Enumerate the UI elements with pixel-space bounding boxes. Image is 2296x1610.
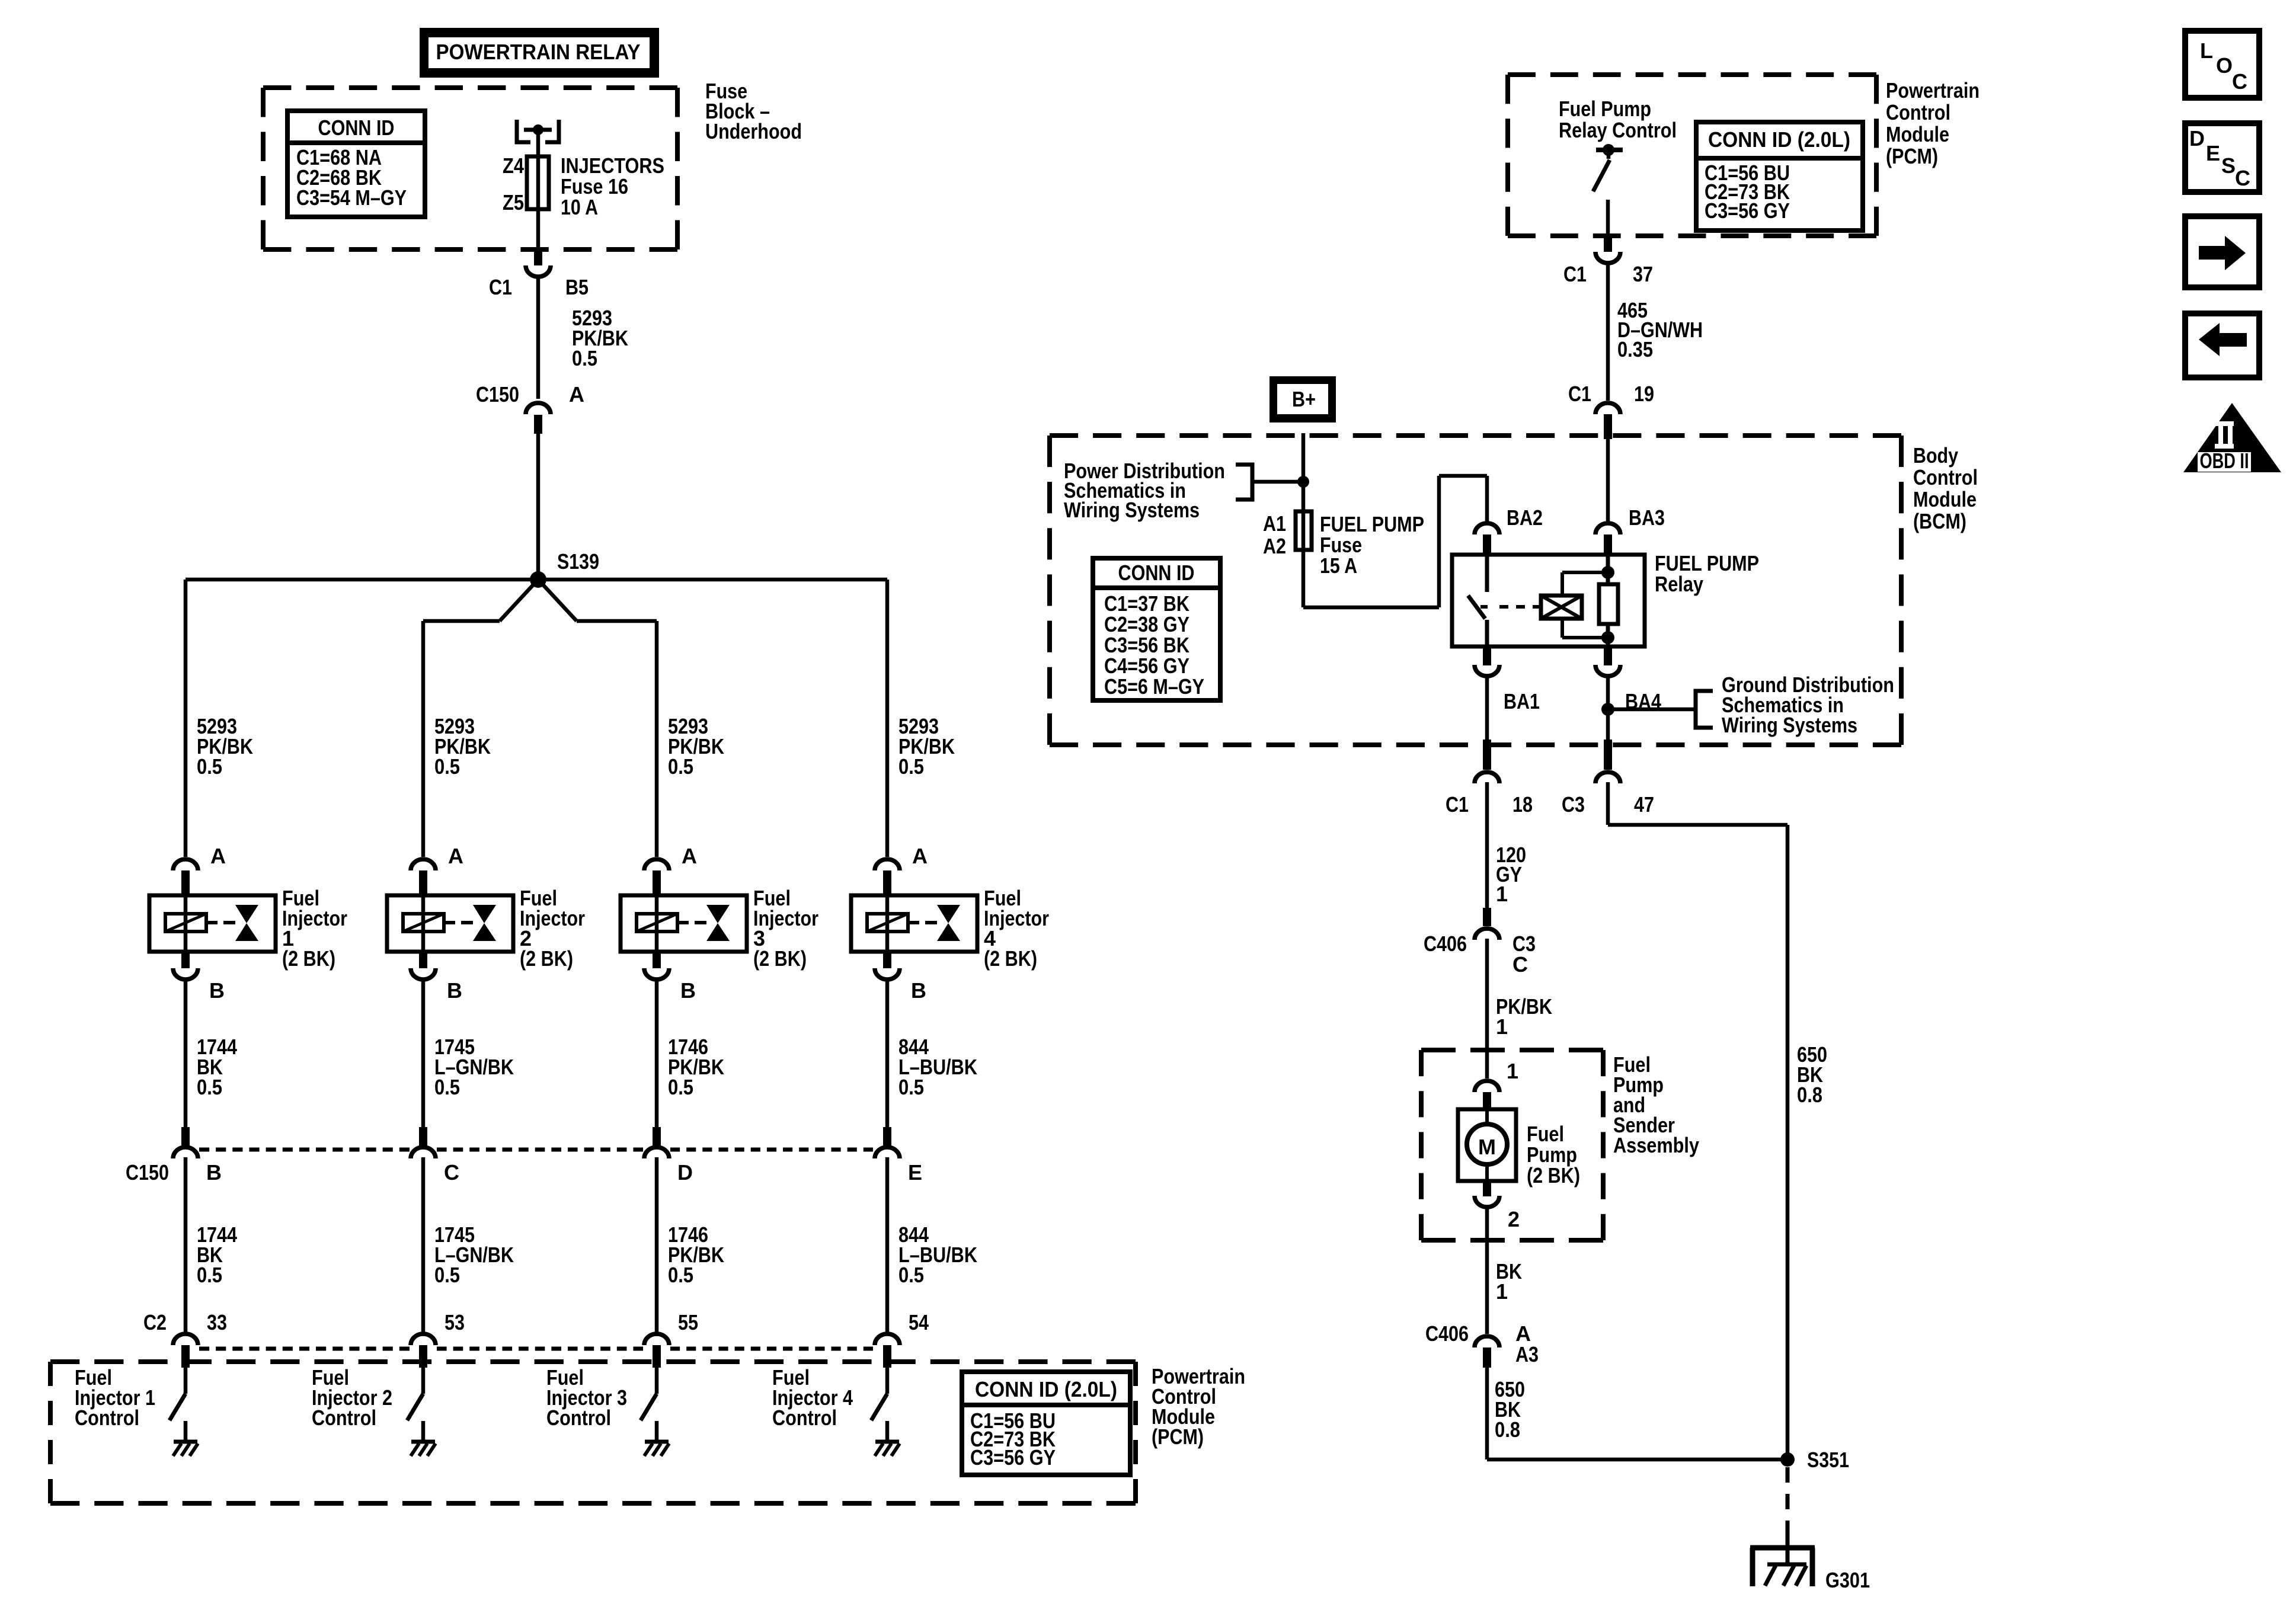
svg-text:0.5: 0.5 — [434, 1263, 460, 1287]
svg-text:Relay: Relay — [1655, 572, 1703, 596]
svg-text:M: M — [1478, 1135, 1496, 1159]
connector pin 1 (pump) — [1475, 1059, 1518, 1109]
label box POWERTRAIN RELAY — [420, 28, 659, 78]
wire PK/BK 1 — [1487, 939, 1552, 1078]
svg-text:0.5: 0.5 — [434, 1075, 460, 1099]
CONN ID (2.0L) table (left PCM) — [962, 1372, 1130, 1475]
svg-text:B: B — [209, 978, 225, 1003]
relay resistor — [1599, 555, 1618, 646]
icon OBD II — [2183, 403, 2281, 473]
wire 5293 PK/BK 0.5 (branch 1) — [186, 580, 253, 857]
ground (injector 3 driver) — [644, 1442, 669, 1456]
connector pin BA2 — [1475, 505, 1543, 555]
svg-text:15 A: 15 A — [1320, 553, 1357, 578]
svg-text:BA1: BA1 — [1504, 689, 1540, 713]
svg-text:BA3: BA3 — [1629, 505, 1665, 530]
relay FUEL PUMP — [1452, 551, 1759, 646]
svg-text:C: C — [2232, 69, 2247, 94]
svg-text:Relay Control: Relay Control — [1559, 118, 1677, 142]
svg-text:C150: C150 — [126, 1160, 169, 1185]
svg-text:E: E — [2206, 141, 2220, 165]
connector C150 pin B — [126, 1127, 222, 1185]
svg-text:C1: C1 — [1446, 792, 1469, 817]
svg-text:0.5: 0.5 — [898, 754, 924, 779]
svg-text:10 A: 10 A — [561, 195, 598, 219]
connector C406 pin A/A3 — [1425, 1321, 1539, 1368]
svg-text:Z4: Z4 — [503, 153, 524, 178]
svg-text:CONN ID: CONN ID — [318, 116, 395, 140]
svg-text:1: 1 — [1496, 1279, 1508, 1304]
svg-text:C: C — [2235, 166, 2250, 190]
svg-text:Wiring Systems: Wiring Systems — [1064, 498, 1200, 522]
fuel injector 1 — [149, 886, 347, 971]
relay coil — [1541, 572, 1608, 638]
svg-text:0.5: 0.5 — [197, 1263, 222, 1287]
wire 1746 PK/BK 0.5 — [657, 980, 724, 1127]
svg-text:C406: C406 — [1424, 932, 1467, 956]
svg-text:54: 54 — [909, 1310, 929, 1334]
svg-text:CONN ID: CONN ID — [1118, 561, 1195, 585]
fuse FUEL PUMP 15 A — [1263, 511, 1424, 578]
wire 1745 L–GN/BK 0.5 (PCM side) — [423, 1157, 514, 1333]
splice S351 — [1780, 1448, 1849, 1472]
wire B+ feed — [1302, 433, 1306, 607]
svg-text:S139: S139 — [557, 549, 599, 574]
svg-text:Control: Control — [546, 1406, 611, 1430]
wire 844 L–BU/BK 0.5 — [887, 980, 977, 1127]
svg-text:Z5: Z5 — [503, 190, 524, 215]
connector pin 2 (pump) — [1475, 1181, 1520, 1231]
label Body Control Module (BCM) — [1913, 443, 1978, 533]
svg-text:C406: C406 — [1425, 1321, 1469, 1346]
svg-text:Control: Control — [1886, 100, 1950, 124]
icon DESC — [2185, 123, 2259, 192]
svg-text:POWERTRAIN RELAY: POWERTRAIN RELAY — [436, 40, 641, 64]
svg-text:(2 BK): (2 BK) — [282, 946, 335, 971]
wire S139 bus — [186, 580, 887, 621]
ground (injector 2 driver) — [411, 1442, 436, 1456]
connector C2 pin 55 — [644, 1310, 698, 1368]
label Fuel Injector 4 Control — [772, 1365, 853, 1430]
svg-text:B: B — [206, 1160, 222, 1185]
connector pin BA4 — [1595, 646, 1661, 713]
svg-text:C3=56 GY: C3=56 GY — [970, 1445, 1056, 1470]
relay switch contacts — [1468, 555, 1542, 646]
svg-text:53: 53 — [445, 1310, 465, 1334]
connector row dashed line (C150) — [199, 1148, 873, 1152]
svg-text:D: D — [2189, 126, 2205, 151]
splice S139 — [530, 549, 599, 588]
svg-text:BA2: BA2 — [1507, 505, 1543, 530]
svg-text:C3: C3 — [1562, 792, 1585, 817]
wire 5293 PK/BK 0.5 (branch 3) — [657, 621, 724, 857]
svg-text:0.5: 0.5 — [197, 754, 222, 779]
svg-text:0.5: 0.5 — [898, 1263, 924, 1287]
svg-text:Control: Control — [772, 1406, 837, 1430]
connector C150 pin A — [476, 382, 584, 434]
svg-text:C5=6 M–GY: C5=6 M–GY — [1104, 674, 1204, 699]
wire 120 GY 1 — [1487, 782, 1526, 908]
bracket (power distribution) — [1236, 465, 1303, 500]
connector C2 pin 53 — [411, 1310, 465, 1368]
icon arrow left — [2185, 313, 2259, 377]
connector pin BA3 — [1595, 505, 1665, 555]
svg-text:A2: A2 — [1263, 534, 1286, 558]
connector C406 pin C3/C — [1424, 908, 1536, 977]
label Ground Distribution Schematics in Wiring Systems — [1722, 673, 1894, 737]
svg-text:1: 1 — [1496, 882, 1508, 906]
wire 5293 PK/BK 0.5 (branch 2) — [423, 621, 491, 857]
svg-text:CONN ID (2.0L): CONN ID (2.0L) — [975, 1377, 1117, 1401]
connector C2 pin 33 — [143, 1310, 227, 1368]
connector row dashed line (C2) — [199, 1347, 873, 1351]
label Fuel Pump and Sender Assembly — [1613, 1052, 1699, 1157]
svg-text:0.5: 0.5 — [668, 754, 693, 779]
fuel pump motor — [1458, 1109, 1580, 1188]
svg-text:(2 BK): (2 BK) — [753, 946, 807, 971]
switch fuel injector 1 driver — [170, 1368, 186, 1442]
label Fuel Injector 1 Control — [75, 1365, 155, 1430]
connector pin A (injector 3) — [644, 844, 697, 895]
svg-text:OBD II: OBD II — [2200, 449, 2249, 473]
node ground tap — [1601, 703, 1614, 716]
fuel injector 2 — [387, 886, 585, 971]
label Fuel Pump Relay Control — [1559, 97, 1677, 142]
switch fuel injector 2 driver — [407, 1368, 423, 1442]
ground (injector 1 driver) — [173, 1442, 198, 1456]
label Fuse Block - Underhood — [705, 79, 802, 143]
connector C1 pin 19 — [1568, 382, 1654, 439]
svg-text:18: 18 — [1512, 792, 1533, 817]
svg-text:(2 BK): (2 BK) — [984, 946, 1037, 971]
connector C150 pin E — [875, 1127, 922, 1185]
svg-text:A: A — [569, 382, 584, 406]
fuse F16 INJECTORS 10 A — [503, 153, 664, 219]
svg-text:A: A — [682, 844, 697, 868]
svg-text:B: B — [680, 978, 696, 1003]
svg-text:(BCM): (BCM) — [1913, 509, 1966, 533]
wire 650 BK 0.8 (pump side) — [1487, 1368, 1787, 1459]
node B+ tap — [1297, 476, 1309, 488]
connector pin B (injector 3) — [644, 952, 696, 1003]
svg-text:D: D — [677, 1160, 693, 1185]
label Power Distribution Schematics in Wiring Systems — [1064, 459, 1225, 522]
svg-text:55: 55 — [678, 1310, 698, 1334]
svg-text:B: B — [911, 978, 926, 1003]
terminal B+ — [1269, 376, 1336, 422]
svg-text:C1: C1 — [1568, 382, 1591, 406]
svg-text:0.8: 0.8 — [1797, 1083, 1822, 1107]
svg-text:A1: A1 — [1263, 511, 1286, 536]
node coil top — [1601, 566, 1614, 579]
svg-text:Control: Control — [1913, 465, 1978, 489]
svg-text:47: 47 — [1634, 792, 1654, 817]
svg-text:(PCM): (PCM) — [1886, 144, 1938, 168]
svg-text:0.35: 0.35 — [1617, 337, 1653, 361]
wire relay gnd out — [1606, 676, 1610, 741]
wire 1744 BK 0.5 — [186, 980, 237, 1127]
connector pin B (injector 4) — [875, 952, 926, 1003]
svg-text:Module: Module — [1913, 487, 1977, 511]
connector pin B (injector 2) — [411, 952, 462, 1003]
fuel injector 4 — [851, 886, 1049, 971]
connector pin A (injector 2) — [411, 844, 463, 895]
svg-text:S351: S351 — [1807, 1448, 1849, 1472]
CONN ID table (fuse block) — [287, 111, 425, 217]
svg-text:C: C — [444, 1160, 459, 1185]
svg-text:Control: Control — [312, 1406, 376, 1430]
wire relay sw out — [1485, 676, 1489, 741]
wire 844 L–BU/BK 0.5 (PCM side) — [887, 1157, 977, 1333]
svg-text:0.5: 0.5 — [668, 1075, 693, 1099]
svg-text:C2: C2 — [143, 1310, 167, 1334]
svg-text:C1: C1 — [489, 275, 512, 299]
svg-text:2: 2 — [1508, 1207, 1520, 1231]
svg-text:0.5: 0.5 — [572, 346, 597, 370]
wire to G301 — [1786, 1467, 1790, 1565]
wire 650 BK 0.8 (right) — [1608, 782, 1827, 1459]
wire BK 1 — [1487, 1207, 1522, 1334]
connector C1 pin B5 — [489, 249, 589, 299]
ground (injector 4 driver) — [875, 1442, 900, 1456]
icon arrow right — [2185, 216, 2259, 287]
svg-text:0.5: 0.5 — [898, 1075, 924, 1099]
connector pin A (injector 4) — [875, 844, 928, 895]
svg-text:Underhood: Underhood — [705, 119, 802, 143]
svg-text:0.5: 0.5 — [197, 1075, 222, 1099]
switch fuel pump relay control driver — [1593, 144, 1623, 236]
svg-text:C3=54 M–GY: C3=54 M–GY — [296, 185, 407, 210]
CONN ID table (BCM) — [1093, 558, 1220, 700]
svg-text:33: 33 — [207, 1310, 227, 1334]
svg-text:A3: A3 — [1515, 1342, 1539, 1366]
svg-text:19: 19 — [1634, 382, 1654, 406]
svg-text:S: S — [2221, 153, 2236, 178]
bracket (ground distribution) — [1608, 691, 1713, 728]
wire — [536, 434, 541, 580]
label Fuel Injector 3 Control — [546, 1365, 627, 1430]
connector C3 pin 47 — [1562, 740, 1654, 817]
connector C2 pin 54 — [875, 1310, 929, 1368]
svg-text:(PCM): (PCM) — [1152, 1425, 1204, 1449]
svg-text:Body: Body — [1913, 443, 1958, 468]
node coil bottom — [1601, 631, 1614, 644]
icon LOC — [2185, 31, 2259, 98]
svg-text:B+: B+ — [1292, 387, 1316, 411]
label Fuel Injector 2 Control — [312, 1365, 392, 1430]
svg-text:Assembly: Assembly — [1613, 1133, 1699, 1157]
svg-text:Module: Module — [1886, 122, 1949, 146]
fuse holder clip — [517, 120, 559, 142]
connector C1 pin 37 — [1563, 233, 1653, 286]
connector C150 pin D — [644, 1127, 693, 1185]
svg-text:0.5: 0.5 — [668, 1263, 693, 1287]
svg-text:0.8: 0.8 — [1495, 1417, 1520, 1442]
svg-text:0.5: 0.5 — [434, 754, 460, 779]
connector C1 pin 18 — [1446, 740, 1533, 817]
svg-text:E: E — [908, 1160, 922, 1185]
svg-text:Powertrain: Powertrain — [1886, 78, 1980, 103]
svg-text:(2 BK): (2 BK) — [520, 946, 573, 971]
node fuse feed — [533, 124, 543, 135]
wire fuse to relay — [1303, 476, 1487, 607]
svg-text:A: A — [210, 844, 226, 868]
svg-text:G301: G301 — [1825, 1568, 1870, 1592]
svg-text:L: L — [2200, 39, 2213, 63]
svg-text:C1: C1 — [1563, 262, 1587, 286]
label Powertrain Control Module (PCM) (left) — [1152, 1364, 1245, 1449]
svg-text:Wiring Systems: Wiring Systems — [1722, 713, 1857, 737]
switch fuel injector 3 driver — [641, 1368, 657, 1442]
wire — [536, 130, 541, 252]
svg-text:B5: B5 — [565, 275, 589, 299]
svg-text:CONN ID (2.0L): CONN ID (2.0L) — [1708, 127, 1850, 152]
PCM dashed box (left) — [50, 1359, 1136, 1364]
PCM dashed box (top right) — [1508, 72, 1876, 77]
connector pin B (injector 1) — [173, 952, 225, 1003]
connector pin BA1 — [1475, 646, 1540, 713]
svg-text:Fuel Pump: Fuel Pump — [1559, 97, 1651, 121]
wire 1745 L–GN/BK 0.5 — [423, 980, 514, 1127]
wire 465 D-GN/WH 0.35 — [1608, 263, 1703, 401]
svg-text:1: 1 — [1507, 1059, 1518, 1083]
wire PCM control to relay coil — [1606, 439, 1610, 522]
svg-text:A: A — [448, 844, 463, 868]
svg-text:O: O — [2216, 53, 2233, 78]
svg-text:1: 1 — [1496, 1014, 1508, 1039]
label Powertrain Control Module (PCM) (right) — [1886, 78, 1980, 168]
switch fuel injector 4 driver — [871, 1368, 887, 1442]
svg-text:C150: C150 — [476, 382, 519, 406]
connector C150 pin C — [411, 1127, 459, 1185]
svg-text:Control: Control — [75, 1406, 139, 1430]
svg-text:(2 BK): (2 BK) — [1527, 1163, 1580, 1188]
wire 1746 PK/BK 0.5 (PCM side) — [657, 1157, 724, 1333]
wire 5293 PK/BK 0.5 — [538, 277, 628, 399]
svg-text:C: C — [1512, 952, 1528, 977]
svg-text:B: B — [447, 978, 462, 1003]
svg-text:A: A — [912, 844, 928, 868]
connector pin A (injector 1) — [173, 844, 226, 895]
svg-text:37: 37 — [1633, 262, 1653, 286]
fuel injector 3 — [621, 886, 818, 971]
wire 1744 BK 0.5 (PCM side) — [186, 1157, 237, 1333]
ground G301 — [1750, 1548, 1870, 1592]
CONN ID (2.0L) table (right PCM) — [1696, 122, 1863, 231]
fuse block underhood dashed box — [263, 85, 677, 90]
BCM dashed box — [1050, 433, 1901, 438]
fuel pump and sender assembly dashed box — [1421, 1048, 1603, 1052]
svg-text:C3=56 GY: C3=56 GY — [1705, 199, 1790, 223]
wire 5293 PK/BK 0.5 (branch 4) — [887, 580, 955, 857]
